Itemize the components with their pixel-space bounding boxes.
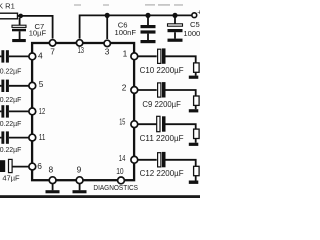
svg-text:0.22µF: 0.22µF bbox=[0, 66, 22, 75]
svg-text:9: 9 bbox=[77, 165, 82, 175]
svg-text:C11 2200µF: C11 2200µF bbox=[140, 134, 184, 143]
svg-text:13: 13 bbox=[78, 45, 85, 55]
ground (channel 4) bbox=[189, 181, 199, 184]
pin 8 bbox=[49, 165, 56, 184]
capacitor 0.22uF (pin 11) bbox=[0, 131, 29, 154]
pin 2 bbox=[122, 83, 138, 94]
wire load to ground (channel 2) bbox=[195, 105, 197, 109]
pin 6 bbox=[29, 161, 42, 171]
svg-text:3: 3 bbox=[105, 46, 110, 56]
channel 3: wire pin15 to load bbox=[138, 124, 196, 129]
svg-text:14: 14 bbox=[119, 153, 126, 163]
ground (channel 1) bbox=[189, 76, 199, 79]
pin 11 bbox=[29, 132, 46, 142]
capacitor C5 1000uF bbox=[168, 15, 210, 38]
ground (C6) bbox=[141, 40, 156, 43]
svg-text:0.22µF: 0.22µF bbox=[0, 95, 22, 104]
channel 1: wire pin1 to load bbox=[138, 56, 196, 63]
svg-text:10µF: 10µF bbox=[29, 29, 47, 38]
resistor load (channel 1) bbox=[194, 63, 200, 72]
resistor R1 bbox=[0, 1, 18, 19]
svg-text:1000µF: 1000µF bbox=[183, 29, 200, 38]
capacitor 0.22uF (pin 5) bbox=[0, 80, 29, 105]
pin 3 bbox=[104, 40, 110, 56]
svg-text:0.22µF: 0.22µF bbox=[0, 145, 22, 154]
svg-text:6: 6 bbox=[37, 161, 42, 171]
node junction C5 bbox=[172, 13, 177, 18]
capacitor 0.22uF (pin 12) bbox=[0, 105, 29, 128]
capacitor C9 2200uF bbox=[142, 82, 181, 109]
svg-text:8: 8 bbox=[49, 165, 54, 175]
node junction R1/C7 bbox=[18, 14, 23, 19]
pin 9 bbox=[76, 165, 83, 184]
capacitor C11 2200uF bbox=[140, 116, 184, 143]
terminal +V supply bbox=[192, 9, 201, 17]
svg-text:C12 2200µF: C12 2200µF bbox=[140, 169, 184, 178]
svg-text:10: 10 bbox=[116, 166, 124, 176]
svg-text:12: 12 bbox=[39, 106, 46, 116]
svg-text:100nF: 100nF bbox=[115, 28, 137, 37]
svg-text:+: + bbox=[197, 9, 200, 16]
svg-text:47µF: 47µF bbox=[2, 173, 20, 182]
pin 4 bbox=[29, 50, 43, 60]
wire load to ground (channel 4) bbox=[195, 176, 197, 181]
svg-text:K R1: K R1 bbox=[0, 1, 15, 10]
ground (pin 8) bbox=[46, 184, 60, 194]
ground (channel 2) bbox=[189, 109, 199, 112]
svg-text:4: 4 bbox=[38, 50, 43, 60]
svg-text:15: 15 bbox=[119, 117, 125, 127]
svg-text:1: 1 bbox=[123, 48, 128, 58]
pin 12 bbox=[29, 106, 46, 116]
svg-text:0.22µF: 0.22µF bbox=[0, 119, 22, 128]
channel 4: wire pin14 to load bbox=[138, 160, 196, 167]
ground (channel 3) bbox=[189, 143, 199, 146]
capacitor C12 2200uF bbox=[140, 152, 184, 178]
pin 1 bbox=[123, 48, 138, 59]
channel 2: wire pin2 to load bbox=[138, 90, 196, 96]
resistor load (channel 4) bbox=[194, 166, 200, 175]
ground (C5) bbox=[168, 39, 183, 42]
resistor load (channel 2) bbox=[194, 96, 200, 105]
pin 15 bbox=[119, 117, 138, 128]
capacitor 47uF (pin 6) bbox=[0, 159, 29, 182]
wire pin 13 riser and +V rail bbox=[80, 15, 193, 38]
wire riser to pin 3 bbox=[106, 15, 108, 39]
svg-text:11: 11 bbox=[39, 132, 46, 142]
svg-text:7: 7 bbox=[50, 46, 55, 56]
ground (pin 9) bbox=[73, 184, 87, 194]
svg-text:5: 5 bbox=[39, 79, 44, 89]
svg-text:C9 2200µF: C9 2200µF bbox=[142, 100, 181, 109]
node junction C6 bbox=[145, 13, 150, 18]
svg-text:2: 2 bbox=[122, 83, 127, 93]
resistor load (channel 3) bbox=[194, 129, 200, 138]
node junction pin3 riser bbox=[105, 13, 110, 18]
capacitor C7 10uF bbox=[12, 18, 47, 39]
wire load to ground (channel 3) bbox=[195, 139, 197, 143]
capacitor C10 2200uF bbox=[140, 48, 184, 75]
svg-text:C10 2200µF: C10 2200µF bbox=[140, 66, 184, 75]
ground (C7) bbox=[12, 39, 26, 42]
capacitor 0.22uF (pin 4) bbox=[0, 50, 29, 75]
pin 10 bbox=[116, 166, 124, 184]
wire load to ground (channel 1) bbox=[195, 72, 197, 75]
pin 14 bbox=[119, 153, 138, 163]
pin 7 bbox=[49, 40, 55, 57]
capacitor C6 100nF bbox=[115, 15, 156, 40]
svg-text:DIAGNOSTICS: DIAGNOSTICS bbox=[93, 183, 138, 192]
IC U1 power amplifier bbox=[32, 43, 134, 180]
pin 5 bbox=[29, 79, 44, 89]
pin 13 bbox=[76, 40, 84, 56]
svg-text:C5: C5 bbox=[190, 20, 200, 29]
wire R1 to pin 7 bbox=[18, 16, 53, 39]
